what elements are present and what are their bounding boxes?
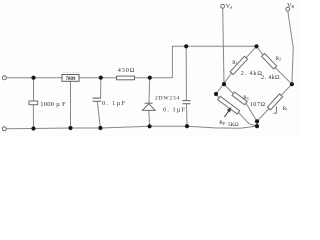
svg-text:0. 1µF: 0. 1µF (163, 107, 185, 114)
junction node upper rail at C3 (184, 44, 188, 48)
wire VR output lead (288, 11, 294, 84)
svg-text:2. 4kΩ: 2. 4kΩ (241, 71, 263, 77)
Rt sensor mark (273, 106, 276, 113)
junction node on top rail at C1 (31, 76, 35, 80)
input terminal bottom-left (2, 127, 6, 131)
wire bridge edge Rt upper (281, 84, 292, 95)
junction node on top rail at C2 (99, 76, 103, 80)
wire ground rail (7, 126, 258, 129)
svg-text:7809: 7809 (66, 77, 77, 82)
capacitor C3 0.1uF (183, 101, 191, 104)
wire bridge edge R2 lower (275, 68, 292, 85)
zener diode VZ 2DW234 (142, 103, 155, 110)
junction node ground at C1 (31, 126, 35, 130)
junction node bridge left corner (214, 92, 218, 96)
resistor R3 107ohm bridge lower-left arm (232, 92, 247, 105)
wire bridge edge R3 lower (246, 103, 257, 121)
input terminal top-left (2, 76, 6, 80)
svg-text:VR: VR (287, 3, 294, 9)
svg-text:R2: R2 (276, 56, 281, 62)
capacitor C1 1000uF electrolytic (29, 101, 38, 105)
svg-text:0. 1µF: 0. 1µF (102, 100, 125, 107)
svg-text:2. 4kΩ: 2. 4kΩ (261, 75, 280, 81)
resistor Rt bridge lower-right arm (267, 94, 282, 110)
wire bridge edge R1 upper (246, 46, 257, 57)
svg-text:107Ω: 107Ω (250, 102, 266, 108)
svg-text:R3: R3 (243, 95, 248, 101)
wire 1000uF branch lower (32, 105, 34, 129)
svg-text:5KΩ: 5KΩ (228, 122, 239, 128)
junction node ground at zener (148, 124, 152, 128)
svg-text:2DW234: 2DW234 (155, 96, 179, 102)
wire bottom vertex link (256, 121, 258, 126)
junction node bridge bottom ground (255, 124, 259, 128)
resistor R 430ohm (117, 76, 135, 80)
svg-text:1000 µ F: 1000 µ F (40, 101, 66, 108)
wire top rail segment C (135, 77, 173, 79)
wire bridge edge RP upper (216, 94, 219, 98)
wire C2 branch lower (97, 101, 100, 128)
wire 1000uF branch upper (33, 78, 35, 101)
wire C3 branch upper (185, 46, 187, 100)
wire C3 branch lower (186, 104, 189, 127)
svg-text:R1: R1 (232, 60, 237, 66)
potentiometer RP wiper arrow (224, 108, 230, 117)
junction node ground at 7809 (68, 126, 72, 130)
resistor R1 2.4k bridge top-left arm (230, 56, 247, 74)
junction node bridge left Vs tap (222, 82, 226, 86)
wire bridge edge R1 lower (216, 73, 232, 94)
wire riser to upper rail (172, 46, 256, 77)
wire 7809 ground pin (70, 81, 72, 128)
svg-text:RP: RP (219, 120, 226, 126)
svg-text:VS: VS (226, 4, 233, 10)
wire C2 branch upper (100, 78, 102, 98)
resistor R2 2.4k bridge top-right arm (262, 53, 277, 68)
junction node bridge top vertex (254, 44, 258, 48)
junction node bridge bottom vertex (255, 119, 259, 123)
junction node on top rail at zener (148, 76, 152, 80)
capacitor C2 0.1uF (93, 98, 102, 101)
scan artifact above regulator (63, 71, 80, 73)
wire top rail segment A (7, 77, 63, 79)
svg-text:Rt: Rt (283, 106, 288, 112)
svg-text:430Ω: 430Ω (118, 67, 135, 74)
wire zener branch lower (148, 110, 151, 126)
wire bridge edge Rt lower (257, 109, 269, 122)
junction node ground at C2 (98, 126, 102, 130)
wire top rail segment B (79, 77, 117, 79)
regulator U1 7809 (62, 75, 79, 82)
output terminal VR (286, 7, 290, 11)
junction node bridge right vertex (290, 82, 294, 86)
wire bridge edge R2 upper (257, 46, 264, 54)
potentiometer RP 5k bridge lower-left arm (218, 96, 240, 114)
output terminal Vs (221, 4, 225, 8)
wire bridge edge RP lower (238, 112, 257, 126)
wire bridge edge R3 upper (224, 84, 233, 94)
wire zener branch upper (148, 78, 151, 104)
wire Vs output lead (223, 8, 224, 84)
junction node ground at C3 (185, 124, 189, 128)
